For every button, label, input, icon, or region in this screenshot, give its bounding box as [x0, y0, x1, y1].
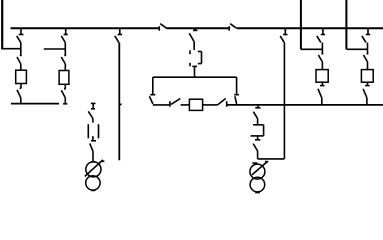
- branch B wire below fuse: [64, 84, 66, 88]
- branch B wire: [64, 43, 66, 56]
- circuit breaker Q2 bracket side: [201, 52, 203, 64]
- branch A disconnector QS1 stub: [20, 28, 22, 34]
- transformer bay 2 disconnector QS17 blade: [253, 144, 257, 151]
- branch E long wire down: [283, 43, 285, 159]
- branch E disconnector QS15 stub: [284, 28, 286, 34]
- circuit breaker Q3 bracket bottom: [251, 135, 264, 137]
- inline switch QS14 blade: [218, 99, 226, 105]
- circuit breaker Q2 upper dash: [189, 50, 191, 54]
- branch B disconnector QS4 stub: [65, 28, 67, 34]
- branch A wire: [20, 43, 22, 56]
- transformer T2 primary winding: [250, 164, 265, 179]
- transformer T1 regulation arrow: [85, 160, 103, 177]
- branch A QS3 jog tick: [20, 87, 22, 89]
- transformer T2 regulation arrow: [252, 162, 267, 175]
- bus tie switch QS11 contact tick: [228, 26, 230, 31]
- bypass loop left riser: [152, 77, 154, 94]
- branch B disconnector QS4 tick: [64, 34, 68, 36]
- branch A disconnector QS1 tick: [19, 34, 24, 36]
- circuit breaker Q1 center dash: [92, 136, 94, 141]
- bypass loop right riser: [236, 77, 238, 94]
- loop right disconnector tick: [234, 94, 239, 96]
- branch E disconnector QS15 blade: [280, 36, 284, 43]
- transformer bay 2 stub below bus: [257, 105, 259, 108]
- resistor R1 body: [189, 99, 202, 110]
- branch C disconnector QS7 stub: [119, 28, 121, 34]
- circuit breaker Q3 bracket side: [263, 125, 265, 136]
- bus tie switch QS11 blade: [230, 24, 236, 28]
- center breaker bay disconnector QS12 blade: [189, 33, 194, 42]
- lower-left bus: [11, 103, 59, 105]
- branch B wire to fuse: [64, 64, 66, 71]
- branch F disconnector QS18 stub: [322, 28, 324, 34]
- transformer T2 arrow barb: [265, 161, 268, 163]
- branch F disconnector QS18 blade: [317, 36, 321, 43]
- loop right disconnector blade: [235, 96, 237, 104]
- branch A disconnector QS2 blade: [17, 57, 21, 64]
- bus tie switch QS10 contact tick: [158, 26, 160, 31]
- transformer bay 2 disconnector QS16 blade: [253, 112, 257, 119]
- right feeder wire 2 vertical: [345, 0, 347, 49]
- circuit breaker Q2 lower tick: [192, 65, 197, 67]
- branch G wire to fuse: [367, 62, 369, 70]
- circuit breaker Q2 bracket bottom: [198, 63, 202, 65]
- branch G disconnector QS23 tick: [365, 85, 370, 87]
- branch G disconnector QS22 blade: [364, 55, 368, 62]
- branch F disconnector QS18 tick: [321, 34, 325, 36]
- branch G wire: [367, 43, 369, 54]
- branch B wire bottom: [64, 98, 66, 104]
- branch F disconnector QS19 blade: [318, 55, 322, 62]
- circuit breaker Q2 lower dash: [189, 63, 191, 66]
- transformer T2 top terminal tick: [252, 162, 257, 164]
- bottom line segment 2: [181, 104, 190, 106]
- transformer feeder D disconnector QS8 blade: [88, 111, 93, 118]
- bottom line segment 1: [153, 104, 170, 106]
- branch A QS2 jog tick: [20, 54, 22, 56]
- left feeder wire horizontal: [1, 48, 21, 50]
- top bus segment 1: [11, 27, 160, 29]
- transformer T2 bottom tick: [255, 192, 260, 194]
- transformer T2 secondary winding: [250, 177, 265, 192]
- top bus segment 2: [166, 27, 229, 29]
- branch G wire to lower bus: [366, 98, 368, 105]
- branch F disconnector QS20 blade: [318, 89, 322, 98]
- bus tie switch QS10 blade: [160, 24, 166, 28]
- branch F QS19 jog tick: [321, 53, 323, 55]
- branch A disconnector QS3 blade: [17, 90, 21, 98]
- circuit breaker Q1 right bar: [98, 124, 100, 138]
- center bay wire: [193, 42, 195, 50]
- circuit breaker Q1 lower tick: [91, 140, 96, 142]
- branch C disconnector QS7 tick: [118, 34, 122, 36]
- circuit breaker Q3 lower tick: [255, 139, 260, 141]
- transformer T1 top terminal tick: [91, 161, 95, 163]
- branch G disconnector QS21 tick: [366, 34, 370, 36]
- branch E elbow wire to transformer bay: [258, 158, 285, 160]
- transformer feeder D top tick: [91, 102, 96, 104]
- inline switch QS13 blade: [171, 99, 180, 105]
- branch A wire to lower bus: [20, 98, 22, 104]
- circuit breaker Q3 stem: [257, 136, 259, 140]
- branch A wire to fuse: [20, 64, 22, 70]
- bypass loop top wire: [153, 76, 237, 78]
- circuit breaker Q3 bracket top: [253, 124, 264, 126]
- branch B QS6 jog tick: [64, 88, 66, 90]
- branch F wire to fuse: [321, 62, 323, 70]
- branch B disconnector QS4 blade: [61, 36, 65, 43]
- branch F wire below fuse: [321, 82, 323, 85]
- left feeder wire vertical: [1, 0, 3, 49]
- transformer feeder D disconnector QS9 blade: [90, 143, 93, 151]
- branch C long wire down: [118, 43, 120, 161]
- transformer T1 arrow barb: [101, 160, 104, 162]
- branch B disconnector QS6 blade: [61, 90, 65, 98]
- transformer feeder D wire: [92, 119, 94, 123]
- branch F disconnector QS20 tick: [320, 85, 325, 87]
- branch G disconnector QS23 blade: [363, 89, 367, 98]
- center breaker bay disconnector QS12 stub: [194, 28, 196, 30]
- circuit breaker Q2 bracket top: [198, 51, 202, 53]
- bottom line segment 3: [203, 104, 218, 106]
- transformer bay 2 disconnector QS16 tick: [255, 107, 260, 109]
- inline switch QS13 tick: [169, 101, 171, 107]
- branch F wire: [321, 43, 323, 54]
- branch A disconnector QS1 blade: [17, 36, 21, 43]
- branch G fuse F4 body: [361, 70, 373, 83]
- loop left disconnector tick: [150, 94, 155, 96]
- branch B disconnector QS5 blade: [61, 57, 65, 64]
- branch G disconnector QS21 blade: [362, 36, 366, 43]
- lower-right bus: [227, 104, 383, 106]
- branch B bottom terminal tick: [63, 103, 67, 105]
- branch B QS5 jog tick: [64, 54, 66, 56]
- circuit breaker Q1 left bar: [87, 124, 89, 138]
- inline switch QS14 tick: [226, 101, 228, 107]
- branch G wire below fuse: [367, 82, 369, 85]
- loop left disconnector blade: [149, 96, 153, 104]
- transformer bay 2 wire: [257, 119, 259, 125]
- transformer T1 secondary winding: [86, 176, 100, 190]
- right feeder wire 1 jumper: [301, 48, 323, 50]
- transformer feeder D stub: [92, 103, 94, 108]
- center bay wire to loop: [194, 66, 196, 77]
- branch G QS22 jog tick: [367, 53, 369, 55]
- branch B fuse F2 body: [59, 71, 69, 85]
- branch C junction nub: [119, 103, 121, 105]
- branch F fuse F3 body: [316, 70, 328, 83]
- transformer feeder D wire to transformer: [92, 151, 94, 162]
- right feeder wire 1 vertical: [300, 0, 302, 49]
- transformer bay 2 wire to elbow: [257, 151, 259, 159]
- transformer T1 primary winding: [86, 162, 101, 177]
- transformer T1 bottom tick: [91, 189, 95, 191]
- branch A wire below fuse: [20, 84, 22, 89]
- branch G disconnector QS21 stub: [367, 28, 369, 34]
- branch E disconnector QS15 tick: [283, 34, 287, 36]
- top bus segment 3: [237, 27, 383, 29]
- transformer feeder D lower tick: [91, 108, 95, 110]
- center breaker bay disconnector QS12 tick: [193, 29, 197, 31]
- branch F wire to lower bus: [321, 98, 323, 105]
- node stub left of branch B: [44, 48, 66, 50]
- right feeder wire 2 jumper: [346, 48, 367, 50]
- branch C disconnector QS7 blade: [115, 36, 119, 43]
- branch A fuse F1 body: [16, 70, 27, 83]
